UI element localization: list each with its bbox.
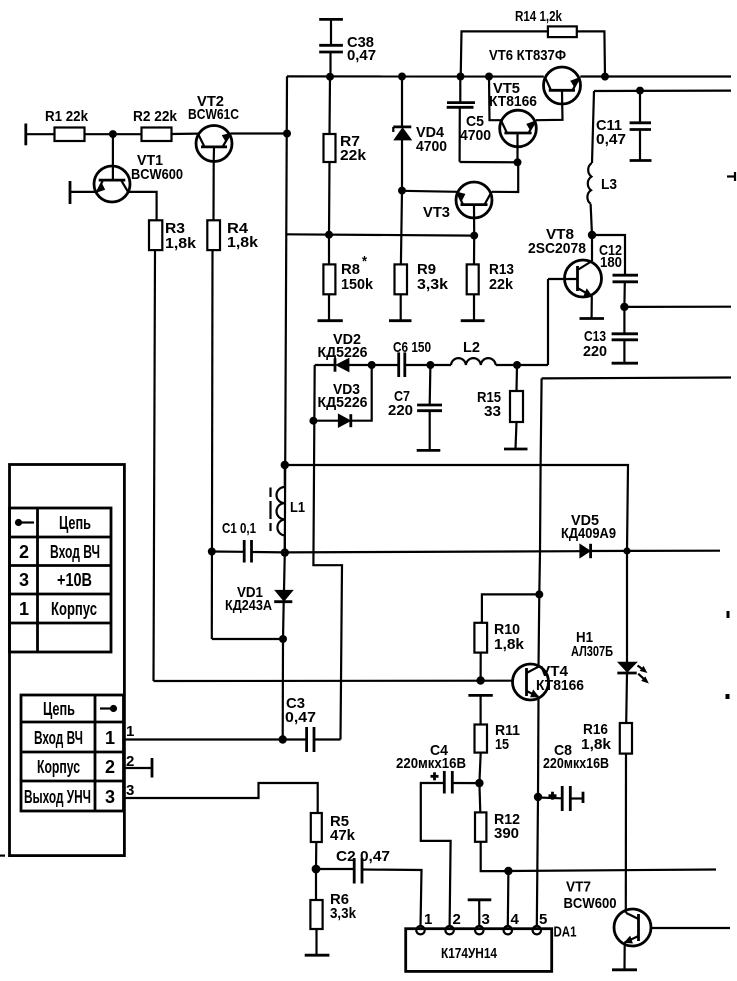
capacitor C2 (316, 848, 422, 927)
svg-text:22k: 22k (340, 147, 367, 164)
svg-text:220мкх16В: 220мкх16В (396, 755, 466, 772)
svg-text:VT3: VT3 (423, 204, 450, 221)
node L1 top (281, 461, 289, 469)
right edge speck 1 (727, 611, 730, 618)
transistor VT3 (423, 182, 492, 236)
svg-text:КД409А9: КД409А9 (561, 525, 616, 542)
svg-text:L1: L1 (290, 499, 305, 516)
inductor L1 (271, 465, 306, 553)
svg-text:3,3k: 3,3k (330, 905, 357, 922)
svg-text:5: 5 (539, 911, 547, 928)
svg-text:+10В: +10В (57, 570, 92, 590)
top bus wire (287, 75, 731, 77)
svg-text:1: 1 (19, 599, 29, 619)
wire y551 to VD5 (285, 551, 581, 552)
svg-text:L2: L2 (463, 339, 480, 356)
svg-text:С2 0,47: С2 0,47 (336, 848, 390, 865)
resistor R3 (149, 220, 197, 252)
svg-text:4: 4 (511, 911, 520, 928)
svg-text:22k: 22k (489, 276, 514, 293)
svg-text:АЛ307Б: АЛ307Б (571, 643, 613, 660)
wire VT5 left leg (489, 77, 501, 121)
inductor L2 (430, 339, 517, 365)
node L2/R15 (513, 361, 521, 369)
pin1 line with C3 (124, 727, 341, 752)
transistor VT2 (188, 93, 239, 162)
LED H1 (571, 551, 648, 723)
svg-text:Корпус: Корпус (37, 757, 80, 777)
node VD2/C6 (368, 361, 376, 369)
node C7 on line (426, 361, 434, 369)
svg-text:R2 22k: R2 22k (133, 108, 178, 125)
transistor VT8 (528, 226, 602, 297)
svg-text:DA1: DA1 (554, 924, 577, 941)
svg-text:0,47: 0,47 (347, 47, 376, 64)
resistor R6 (310, 869, 356, 955)
capacitor C1 (212, 520, 285, 563)
VT4 emitter line down (537, 697, 539, 927)
svg-text:3,3k: 3,3k (417, 276, 449, 293)
wire R3 down long (154, 250, 156, 681)
svg-text:КД5226: КД5226 (318, 394, 368, 411)
svg-text:BCW600: BCW600 (564, 895, 617, 912)
svg-text:Вход ВЧ: Вход ВЧ (50, 542, 100, 562)
wire R1 to R2 (85, 133, 142, 135)
svg-text:4700: 4700 (416, 138, 447, 155)
node R5/C2/R6 (312, 865, 321, 874)
svg-text:220: 220 (583, 343, 607, 360)
node C5/R14 on bus (457, 73, 465, 81)
capacitor C8 (538, 742, 609, 811)
connector table X2 lower (21, 695, 124, 811)
transistor VT1 (94, 134, 183, 202)
resistor R7 (324, 77, 367, 235)
svg-text:1,8k: 1,8k (227, 234, 259, 251)
resistor R15 (477, 365, 528, 449)
node R7/R8 (325, 231, 333, 239)
svg-text:2SC2078: 2SC2078 (528, 240, 586, 257)
svg-text:150k: 150k (341, 276, 374, 293)
svg-text:15: 15 (495, 736, 509, 753)
svg-text:3: 3 (105, 787, 115, 807)
ground R6 (305, 954, 330, 957)
svg-text:BCW600: BCW600 (131, 166, 183, 183)
capacitor C12 (592, 235, 638, 307)
VT8 emitter terminal (580, 296, 605, 318)
VT1 emitter terminal (70, 181, 97, 204)
svg-text:220: 220 (388, 402, 413, 419)
svg-text:Цепь: Цепь (59, 513, 91, 533)
capacitor C5 (447, 77, 518, 163)
node VT3/R13 (470, 232, 478, 240)
wire L2 node to VT8 base (517, 364, 548, 366)
left loop vertical and jog to C3 (313, 365, 342, 740)
svg-text:С6 150: С6 150 (393, 339, 431, 356)
svg-text:4700: 4700 (460, 127, 491, 144)
svg-text:1,8k: 1,8k (581, 736, 612, 753)
svg-text:R14 1,2k: R14 1,2k (515, 8, 562, 25)
svg-text:*: * (362, 253, 367, 270)
node R14 right on bus (601, 73, 609, 81)
resistor R12 (475, 783, 520, 871)
capacitor C11 (596, 91, 652, 161)
svg-text:Корпус: Корпус (51, 599, 97, 619)
IC DA1 K174UN14 (406, 924, 577, 972)
svg-text:2: 2 (19, 542, 29, 562)
pin3 cap terminal (468, 900, 492, 927)
right edge speck 2 (726, 694, 730, 699)
transistor VT5 (489, 80, 537, 162)
resistor R5 (311, 813, 356, 869)
node L3/VT8/C12 (588, 231, 596, 239)
VT8 base wire down (547, 279, 549, 365)
node VD4 on bus (398, 73, 406, 81)
capacitor C6 (372, 339, 431, 377)
rail y307 right (624, 306, 731, 308)
svg-text:R1 22k: R1 22k (45, 108, 89, 125)
wire y465 to right corner (285, 465, 628, 551)
rail y90 right (594, 89, 731, 92)
rail y378 and VT4 collector line (539, 378, 732, 668)
wire VT5 right to VT6 emitter (536, 104, 563, 120)
svg-text:3: 3 (19, 570, 29, 590)
outer box around connectors (0, 465, 124, 856)
svg-text:1: 1 (126, 723, 134, 740)
resistor R8 (318, 235, 374, 321)
svg-text:47k: 47k (330, 827, 356, 844)
VT7 emitter to ground (612, 942, 637, 969)
svg-text:0,47: 0,47 (285, 709, 316, 726)
svg-text:2: 2 (105, 757, 115, 777)
pin2 stub terminal (124, 758, 153, 778)
diode VD1 (225, 553, 293, 639)
wire pin4 down (507, 871, 510, 927)
svg-text:1,8k: 1,8k (165, 235, 197, 252)
svg-text:К174УН14: К174УН14 (441, 945, 498, 962)
resistor R10 (474, 594, 539, 680)
wire VT2 emitter to R4 (212, 162, 214, 221)
transistor VT6 (489, 47, 581, 104)
capacitor C4 (396, 742, 479, 927)
node R1/R2/VT1 (109, 130, 117, 138)
svg-text:1: 1 (105, 728, 115, 748)
node C38/R7 on bus (326, 73, 334, 81)
node VT2/main vertical (283, 130, 291, 138)
svg-text:3: 3 (482, 911, 490, 928)
svg-text:Вход ВЧ: Вход ВЧ (34, 728, 83, 748)
node VD3 left (309, 417, 317, 425)
svg-text:180: 180 (600, 254, 622, 271)
svg-text:0,47: 0,47 (596, 131, 626, 148)
svg-text:Цепь: Цепь (43, 699, 75, 719)
inductor L3 (587, 91, 617, 235)
resistor R2 (133, 108, 178, 141)
pin3 line to R5 (124, 783, 318, 813)
rail y870 right (508, 870, 716, 872)
node C11 on rail (636, 87, 644, 95)
wire R4 down long (212, 250, 283, 639)
node C8 on emitter line (534, 793, 542, 801)
node R12/pin4 (504, 867, 512, 875)
svg-text:С1 0,1: С1 0,1 (222, 520, 256, 537)
wire VD4 line down to R9 (401, 191, 402, 265)
resistor R4 (207, 220, 258, 251)
svg-text:КД5226: КД5226 (318, 344, 368, 361)
main vertical bus left (285, 76, 287, 552)
svg-text:390: 390 (494, 825, 519, 842)
node R11/C4/R12 (475, 779, 483, 787)
capacitor C13 (583, 307, 638, 363)
svg-text:BCW61C: BCW61C (188, 106, 239, 123)
node VT5 left leg on bus (485, 73, 493, 81)
diode VD5 (561, 512, 720, 558)
svg-text:1,8k: 1,8k (494, 636, 525, 653)
node C12/C13/rail (620, 303, 628, 311)
svg-text:220мкх16В: 220мкх16В (543, 755, 609, 772)
resistor R11 with top bar (468, 695, 520, 783)
right edge stub mark (727, 172, 736, 181)
resistor R1 (45, 108, 89, 141)
node VD5 line/H1 (623, 547, 630, 554)
svg-text:VT6 КТ837Ф: VT6 КТ837Ф (489, 47, 566, 64)
resistor R13 (461, 236, 514, 321)
resistor R9 (389, 261, 449, 321)
node L1/C1/VD1 (281, 548, 289, 556)
node VD4/VT3 (398, 187, 406, 195)
svg-text:КТ8166: КТ8166 (536, 677, 584, 694)
diode VD3 (313, 365, 371, 427)
node R10/VT4 base (476, 676, 484, 684)
bus y234 (286, 234, 474, 235)
svg-text:VT7: VT7 (566, 879, 591, 896)
wire VD4 to VT3 (402, 191, 457, 192)
wire R2 to VT2 (172, 133, 200, 136)
svg-text:Выход УНЧ: Выход УНЧ (24, 787, 91, 807)
input terminal left (26, 124, 55, 146)
svg-text:КТ8166: КТ8166 (489, 93, 537, 110)
svg-text:1: 1 (424, 911, 432, 928)
node C1 left on R4 line (208, 548, 216, 556)
svg-text:2: 2 (126, 753, 134, 770)
resistor R14 (461, 8, 605, 77)
resistor R16 (581, 721, 632, 913)
transistor VT7 (564, 879, 731, 947)
wire VT2 collector to main vertical (231, 132, 288, 134)
wire y681 base line (154, 680, 513, 682)
wire VT1 right to R3 (128, 192, 157, 220)
capacitor C38 (319, 19, 376, 76)
svg-text:L3: L3 (601, 176, 617, 193)
node VD1 bottom / R4 corner (279, 635, 287, 643)
svg-text:2: 2 (453, 911, 461, 928)
diode VD4 (393, 77, 447, 191)
node VT5 emitter/C5/VT3 (514, 158, 522, 166)
svg-text:33: 33 (484, 403, 501, 420)
node R10 top (535, 590, 543, 598)
transistor VT4 (513, 663, 585, 700)
svg-text:КД243А: КД243А (225, 597, 272, 614)
connector table X1 upper (10, 508, 112, 652)
capacitor C3 label (285, 695, 316, 726)
wire VD1 node down to pin1 line (282, 639, 284, 740)
pin wire numbers (126, 723, 134, 799)
capacitor C7 (388, 365, 442, 450)
diode VD2 (315, 331, 372, 372)
pin numbers 1-5 (424, 911, 547, 928)
svg-text:3: 3 (126, 782, 134, 799)
wire VT3 right up (492, 162, 519, 192)
